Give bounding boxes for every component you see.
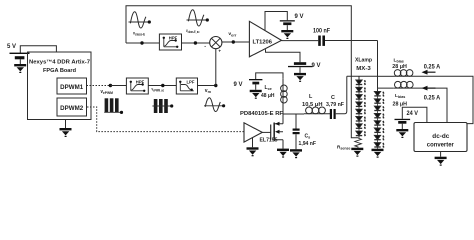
node verr bbox=[232, 40, 235, 43]
svg-text:PD840105-E RF: PD840105-E RF bbox=[240, 111, 283, 117]
wire 5V to board bbox=[20, 46, 56, 54]
wire LPF to node vm bbox=[198, 85, 216, 87]
svg-text:Nexys™4 DDR Artix-7: Nexys™4 DDR Artix-7 bbox=[29, 59, 90, 65]
waveform icon PWM ac (vePWM_ac) bbox=[154, 99, 168, 113]
waveform icon sine (vclass-E) bbox=[129, 21, 149, 23]
svg-text:0.25 A: 0.25 A bbox=[424, 64, 441, 70]
resistor Rsense bbox=[355, 136, 362, 148]
svg-text:9 V: 9 V bbox=[312, 63, 321, 69]
svg-text:LT1206: LT1206 bbox=[253, 40, 273, 46]
svg-text:vclass-E: vclass-E bbox=[133, 31, 145, 37]
wire lamp to Lbias1 bbox=[378, 75, 394, 77]
filter block HPF (feedback path) bbox=[159, 34, 181, 50]
block DPWM2 bbox=[57, 98, 87, 116]
node vclass-E bbox=[140, 41, 143, 44]
inductor Lbias2 28uH bbox=[395, 81, 414, 88]
wire drain node to resonant L bbox=[283, 113, 304, 115]
ground under board bbox=[60, 128, 72, 137]
svg-text:3,79 nF: 3,79 nF bbox=[326, 102, 345, 108]
node vm bbox=[214, 84, 217, 87]
feedback wire top loop bbox=[126, 6, 358, 138]
svg-text:48 μH: 48 μH bbox=[261, 93, 275, 99]
wire battery to ground bbox=[19, 59, 21, 64]
current arrow 0.25A bottom bbox=[426, 87, 436, 89]
svg-text:XLamp: XLamp bbox=[355, 57, 373, 63]
ground under dc-dc bbox=[435, 157, 447, 166]
inductor Lce 48uH bbox=[282, 78, 284, 114]
wire op-amp V- to 9V bbox=[266, 49, 301, 62]
ground under Cs bbox=[290, 149, 302, 158]
ground under top 9V bbox=[281, 30, 293, 39]
wire Lbias2 to dc-dc bbox=[394, 88, 447, 122]
svg-text:dc-dc: dc-dc bbox=[432, 133, 449, 140]
svg-text:10,5 μH: 10,5 μH bbox=[302, 102, 323, 108]
ground under MOSFET bbox=[277, 149, 289, 158]
dashed wire DPWM1 to node vePWM bbox=[87, 85, 111, 87]
wire to HPF1 bbox=[126, 42, 159, 44]
capacitor Cs shunt bbox=[295, 114, 297, 129]
svg-text:9 V: 9 V bbox=[295, 14, 304, 20]
svg-text:vePWM_ac: vePWM_ac bbox=[152, 87, 165, 93]
ground under EL7155 bbox=[247, 147, 259, 156]
node vclass-E_ac bbox=[194, 41, 197, 44]
node vePWM bbox=[109, 84, 112, 87]
ground under string 1 bbox=[351, 148, 363, 157]
svg-text:-: - bbox=[204, 44, 206, 50]
inductor L 10.5uH bbox=[304, 113, 330, 115]
dashed wire DPWM2 to EL7155 bbox=[87, 107, 244, 132]
svg-text:24 V: 24 V bbox=[407, 111, 419, 117]
wire Lbias1 to dc-dc bbox=[394, 76, 474, 123]
svg-text:vePWM: vePWM bbox=[101, 89, 114, 95]
waveform icon sine (vclass-E_ac) bbox=[187, 19, 207, 21]
battery V1 5V bbox=[10, 53, 30, 60]
svg-text:vclass-E_ac: vclass-E_ac bbox=[186, 28, 200, 34]
ground under 24V bbox=[396, 129, 408, 138]
svg-text:Cs: Cs bbox=[305, 133, 311, 139]
svg-text:LPF: LPF bbox=[187, 79, 195, 84]
wire board to ground bbox=[65, 120, 67, 129]
wire lamp to Lbias2 bbox=[378, 87, 394, 89]
battery 9V mid (reversed) bbox=[288, 62, 313, 67]
wire node to HPF2 bbox=[110, 85, 126, 87]
inductor Lbias1 28uH bbox=[394, 70, 413, 77]
battery 9V top bbox=[280, 20, 295, 25]
svg-text:verr: verr bbox=[228, 31, 237, 37]
svg-text:MX-3: MX-3 bbox=[356, 66, 371, 72]
capacitor C 3.79nF bbox=[330, 109, 336, 119]
LED string 2 bbox=[377, 88, 379, 91]
wire C to lamp left rail bbox=[336, 76, 347, 114]
wire multiplier to op-amp bbox=[222, 41, 250, 43]
svg-text:28 μH: 28 μH bbox=[393, 102, 408, 108]
ground under string 2 bbox=[372, 149, 384, 158]
svg-text:C: C bbox=[331, 95, 335, 101]
wire 100nF to lamp bbox=[325, 40, 378, 42]
MOSFET Q1 symbol bbox=[262, 131, 270, 133]
wire op-amp out to 100nF bbox=[282, 40, 319, 42]
svg-text:Rsense: Rsense bbox=[337, 144, 351, 150]
svg-text:DPWM2: DPWM2 bbox=[60, 106, 84, 112]
svg-text:9 V: 9 V bbox=[234, 82, 243, 88]
svg-text:FPGA Board: FPGA Board bbox=[43, 68, 77, 74]
wire 9V to Lce bbox=[256, 73, 283, 79]
wire vm up to multiplier bbox=[215, 49, 217, 86]
svg-text:1,94 nF: 1,94 nF bbox=[299, 141, 317, 147]
driver EL7155 bbox=[244, 123, 262, 142]
block DPWM1 bbox=[57, 78, 87, 94]
ground under left 9V bbox=[250, 90, 262, 99]
lamp XLamp MX-3 box bbox=[347, 41, 378, 89]
svg-text:100 nF: 100 nF bbox=[313, 29, 330, 35]
capacitor 100nF bbox=[318, 36, 325, 46]
summing node (multiplier) bbox=[210, 37, 222, 49]
block dc-dc converter bbox=[414, 123, 467, 152]
LED string 1 bbox=[358, 76, 360, 80]
wire HPF2 to LPF bbox=[148, 85, 176, 87]
op-amp U1 LT1206 bbox=[249, 21, 281, 57]
svg-text:Lbias: Lbias bbox=[395, 93, 405, 99]
svg-text:5 V: 5 V bbox=[7, 44, 16, 50]
ground under mid 9V bbox=[294, 73, 306, 82]
filter block HPF (PWM path) bbox=[126, 78, 148, 94]
waveform icon sine (vm) bbox=[204, 105, 223, 107]
svg-text:0.25 A: 0.25 A bbox=[424, 96, 441, 102]
wire HPF1 to multiplier bbox=[182, 42, 210, 44]
svg-text:28 μH: 28 μH bbox=[392, 64, 407, 70]
waveform icon PWM (vePWM) bbox=[105, 98, 119, 112]
ground under V1 bbox=[14, 64, 26, 73]
svg-text:Lce: Lce bbox=[265, 85, 272, 91]
svg-text:+: + bbox=[218, 49, 221, 54]
svg-text:Lbias: Lbias bbox=[394, 58, 404, 64]
node vePWM_ac bbox=[161, 84, 164, 87]
svg-text:DPWM1: DPWM1 bbox=[60, 85, 84, 91]
FPGA board box bbox=[28, 52, 92, 120]
svg-text:L: L bbox=[309, 94, 313, 100]
filter block LPF bbox=[176, 78, 197, 94]
wire op-amp V+ to 9V bbox=[265, 12, 287, 31]
svg-text:converter: converter bbox=[427, 141, 454, 148]
svg-text:vm: vm bbox=[205, 88, 212, 94]
